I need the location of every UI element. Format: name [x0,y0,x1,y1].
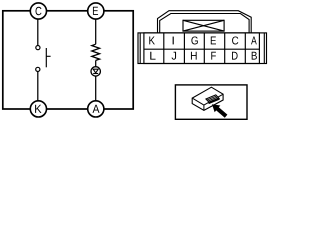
pin F [211,52,216,60]
pin cells box [144,33,260,64]
connector icon socket slat 2 [208,97,218,101]
connector icon socket outline [206,95,219,103]
cell divider G/E H/F [203,33,205,64]
cell divider C/A D/B [244,33,246,64]
pin table inner left wall [139,33,141,64]
pin table outer box [138,33,267,64]
terminal A [88,101,104,117]
pin E [211,37,216,45]
circuit box frame [3,11,133,109]
pin table inner right wall [263,33,265,64]
pin L [150,52,155,60]
connector icon front-right edge [203,105,205,110]
terminal E [88,3,104,19]
switch blade [45,48,47,67]
terminal C [30,3,46,19]
wire E to resistor [95,11,97,44]
connector icon socket collar edge [209,99,220,104]
pin G [191,36,197,44]
connector icon top-front edge [192,98,204,105]
switch contact bottom [36,67,40,71]
icon box frame [175,85,247,119]
switch contact top [36,46,40,50]
pin C [232,36,238,44]
connector icon socket slat 1 [207,96,217,100]
pin H [191,52,197,60]
pointer arrow [212,104,227,118]
switch blade tick [46,55,50,57]
LED diode triangle [93,69,98,73]
wire LED to A [95,76,97,109]
wire switch to K [37,72,39,109]
connector housing inner outline [160,14,249,33]
connector housing outer outline [158,11,252,33]
connector latch crossed box [183,20,224,31]
pin table row divider [144,48,260,50]
pin K [149,37,155,45]
pin I [173,37,174,45]
cell divider E/C F/D [224,33,226,64]
connector icon socket slat 3 [209,98,219,102]
pin B [252,52,257,60]
terminal K [30,101,46,117]
LED cathode bar [93,73,98,75]
pin D [232,52,238,60]
wire resistor to LED [95,60,97,66]
pin A [251,37,257,45]
connector icon end-top edge [204,94,223,105]
cell divider I/G J/H [183,33,185,64]
wire C to switch [37,11,39,45]
LED lamp circle [91,67,100,76]
connector icon body outline [192,87,223,110]
resistor R [92,44,100,60]
cell divider K/I L/J [163,33,165,64]
pin J [172,52,177,60]
